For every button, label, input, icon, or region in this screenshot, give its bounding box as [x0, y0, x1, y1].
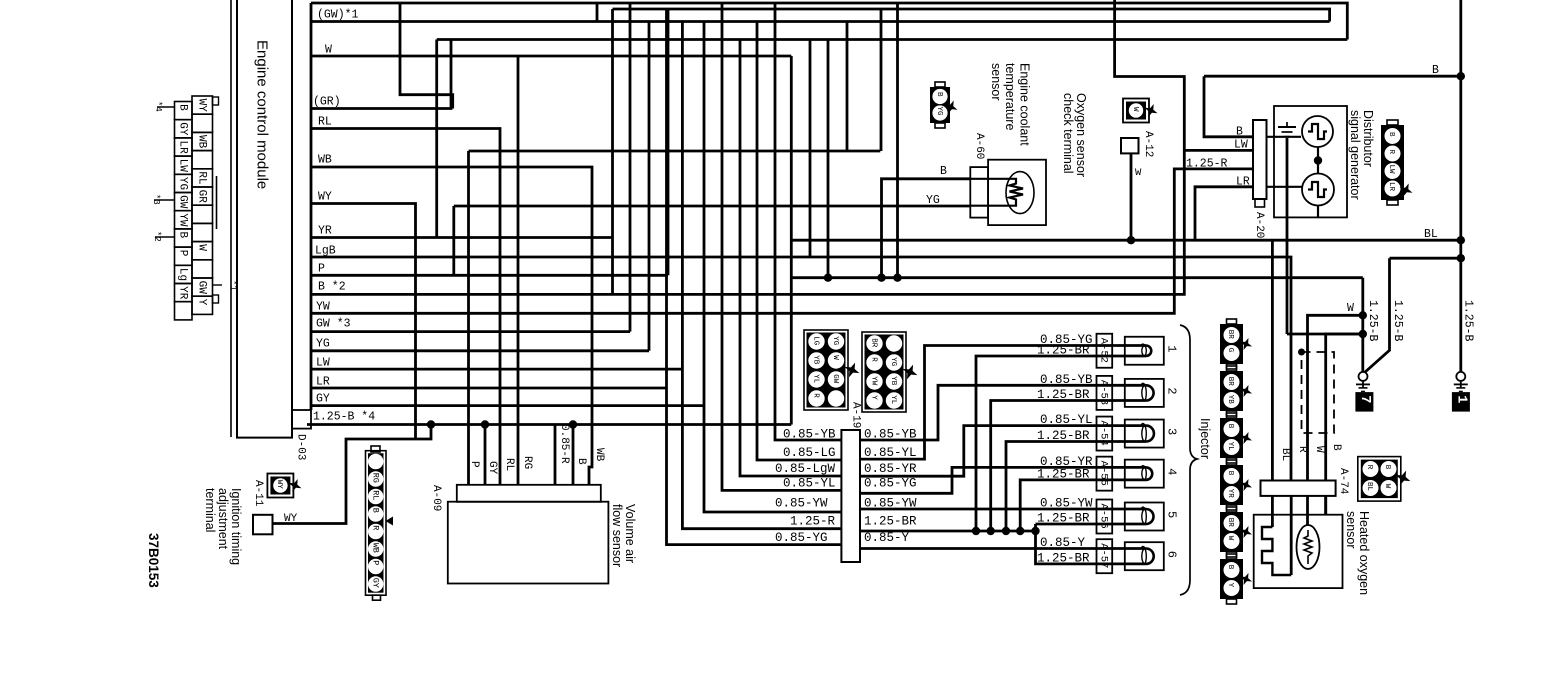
wire main right vertical 1.25-B to ground 1 [1459, 0, 1462, 372]
distributor pickup coil 1 [1302, 116, 1333, 147]
terminal A-12 open square [1121, 138, 1139, 153]
svg-text:0.85-R: 0.85-R [558, 424, 570, 464]
junction dot WY/1.25-B [427, 420, 435, 428]
svg-text:YG: YG [831, 336, 839, 346]
svg-text:BL: BL [1365, 482, 1373, 492]
wire LW from ECM [311, 368, 682, 371]
wire top bus y3 [311, 3, 1347, 40]
svg-text:W: W [1226, 536, 1234, 541]
svg-text:RG: RG [371, 473, 381, 483]
wire A-09 RG feed [517, 56, 520, 485]
junction dot BL/main vertical [1457, 236, 1465, 244]
wire bus y39.5 [437, 38, 1348, 41]
svg-text:YW: YW [870, 376, 878, 386]
svg-text:YB: YB [889, 376, 897, 386]
svg-text:RL: RL [371, 490, 381, 500]
wire vertical x630 [629, 3, 632, 332]
svg-text:YL: YL [889, 395, 897, 405]
svg-text:1.25-BR: 1.25-BR [1037, 344, 1090, 358]
svg-text:RL: RL [503, 458, 515, 471]
svg-text:A-09: A-09 [430, 485, 442, 511]
connector icon injector 2 (BR/YB) [1220, 371, 1243, 411]
svg-text:W: W [1313, 446, 1325, 453]
svg-text:0.85-YB: 0.85-YB [783, 428, 836, 442]
connector icon injector 3 (B/YL) [1220, 418, 1243, 458]
wire bus y334 to distributor ground [1287, 333, 1363, 336]
svg-text:LG: LG [812, 336, 820, 346]
svg-text:A-56: A-56 [1098, 504, 1110, 529]
svg-text:5: 5 [1165, 511, 1179, 518]
page boundary line [230, 0, 232, 437]
wire heated O2 B wire [1326, 334, 1363, 481]
injector 3 symbol [1125, 420, 1164, 448]
svg-text:LR: LR [1387, 182, 1395, 192]
connector icon B/YG (A-60) [930, 87, 950, 123]
junction dot dashed corner [1298, 349, 1305, 356]
svg-text:check terminal: check terminal [1061, 93, 1075, 174]
svg-text:1.25-B *4: 1.25-B *4 [313, 411, 375, 424]
connector A-20 bar [1253, 120, 1267, 199]
svg-text:0.85-YR: 0.85-YR [864, 462, 917, 476]
wire 1.25-BR riser injector1 [976, 356, 1125, 531]
svg-text:YR: YR [1226, 489, 1234, 499]
wire B*2 from ECM (Z-path to top) [311, 0, 1184, 294]
svg-text:LR: LR [1236, 176, 1250, 189]
svg-text:3: 3 [1165, 428, 1179, 435]
wire A-19 YG feed [667, 9, 842, 545]
svg-text:YG: YG [889, 357, 897, 367]
svg-text:1.25-R: 1.25-R [790, 515, 836, 529]
svg-text:R: R [812, 393, 820, 398]
svg-text:YW: YW [316, 301, 330, 314]
svg-text:R: R [870, 357, 878, 362]
svg-text:adjustment: adjustment [216, 488, 230, 550]
svg-text:W: W [1131, 107, 1139, 112]
wire B bus y76 [1204, 75, 1461, 78]
connector icon injector 6 (B/Y) [1220, 559, 1243, 599]
wire A-60 YG drop to P [452, 206, 455, 275]
svg-text:Oxygen sensor: Oxygen sensor [1074, 93, 1088, 177]
ignition timing adjustment terminal icon A-11 [267, 474, 293, 498]
svg-text:1.25-BR: 1.25-BR [1037, 388, 1090, 402]
svg-text:1.25-BR: 1.25-BR [1037, 512, 1090, 526]
svg-text:P: P [177, 250, 189, 257]
svg-text:0.85-YB: 0.85-YB [1040, 373, 1093, 387]
svg-text:B: B [1236, 126, 1243, 139]
svg-text:W: W [1135, 167, 1142, 179]
connector icon injector 1 (BR/G) [1220, 324, 1243, 364]
svg-text:Y: Y [196, 299, 208, 306]
svg-text:B: B [1432, 64, 1439, 77]
connector icon A-19 grid 2 [862, 332, 906, 412]
svg-text:WB: WB [196, 135, 208, 149]
svg-text:0.85-YW: 0.85-YW [775, 497, 828, 511]
wire A-19 1.25-BR bus out [860, 530, 1036, 533]
svg-text:A-55: A-55 [1098, 461, 1110, 486]
svg-text:0.85-YG: 0.85-YG [775, 531, 828, 545]
svg-text:2: 2 [1165, 387, 1179, 394]
svg-text:WB: WB [318, 154, 332, 167]
wire bus y240 (BL) [791, 239, 1461, 242]
engine coolant temperature sensor A-60 connector face [970, 167, 988, 218]
wire A-12 W wire [1130, 153, 1133, 240]
svg-text:A-54: A-54 [1098, 421, 1110, 446]
svg-text:Engine coolant: Engine coolant [1018, 63, 1032, 146]
svg-text:YL: YL [812, 374, 820, 384]
svg-text:RL: RL [318, 116, 332, 129]
svg-text:B: B [177, 104, 189, 111]
svg-text:6: 6 [1165, 551, 1179, 558]
svg-text:W: W [831, 355, 839, 360]
connector A-53 box [1097, 376, 1113, 410]
svg-text:YG: YG [926, 194, 940, 207]
connector A-56 box [1097, 500, 1113, 534]
svg-text:WY: WY [284, 513, 298, 525]
wire jog (GR) upper [400, 3, 453, 109]
wire A-19 YL feed [722, 3, 841, 490]
ground 7 [1359, 372, 1368, 381]
svg-text:P: P [318, 263, 325, 276]
svg-text:R: R [1296, 446, 1308, 453]
wire (GW)*1 from ECM [311, 20, 1330, 23]
engine coolant temperature sensor A-60 box [988, 160, 1046, 225]
connector strip icon (RG RL B R WB P GY) [366, 451, 387, 596]
distributor pickup coil 2 [1302, 174, 1334, 206]
svg-text:YW: YW [177, 213, 189, 227]
svg-text:GR: GR [196, 190, 208, 204]
wire A-19 LgW feed [740, 40, 841, 477]
svg-text:BR: BR [1226, 377, 1234, 387]
ground 1 [1456, 372, 1465, 381]
wire vertical x612 [611, 9, 614, 294]
svg-text:G: G [1226, 348, 1234, 353]
wire wire 1.25-B down to ground 7 [1364, 258, 1390, 373]
wire 1.25-BR riser injector4 [1020, 480, 1125, 531]
wire 1.25-BR riser injector3 [1006, 442, 1125, 532]
svg-text:GY: GY [316, 393, 330, 406]
distributor signal generator A-20 box [1274, 106, 1347, 217]
svg-text:Lg: Lg [177, 268, 189, 281]
svg-text:A-74: A-74 [1337, 468, 1349, 495]
svg-text:0.85-Y: 0.85-Y [864, 531, 910, 545]
svg-text:YR: YR [318, 225, 332, 238]
svg-text:GY: GY [177, 122, 189, 136]
distributor internal wires [1317, 147, 1319, 174]
svg-text:37B0153: 37B0153 [146, 533, 161, 588]
wire vertical x881 (top to bus151) [880, 9, 883, 151]
svg-text:B: B [1226, 424, 1234, 429]
svg-text:YR: YR [177, 286, 189, 300]
svg-text:WY: WY [318, 191, 332, 204]
svg-text:BR: BR [1226, 330, 1234, 340]
wire P from ECM [311, 274, 668, 277]
svg-text:B: B [1330, 444, 1342, 451]
svg-text:W: W [1347, 302, 1354, 315]
svg-text:1.25-B: 1.25-B [1366, 300, 1379, 342]
svg-text:LW: LW [316, 357, 330, 370]
wire 1.25-BR drop to injector6 [1036, 524, 1125, 564]
wire A-19 YL out to injector 1 [860, 346, 1125, 460]
svg-text:R: R [371, 525, 381, 530]
svg-text:YG: YG [316, 338, 330, 351]
svg-text:A-12: A-12 [1142, 131, 1154, 157]
svg-text:P: P [468, 461, 480, 468]
injector 2 symbol [1125, 379, 1164, 407]
svg-text:YL: YL [1226, 442, 1234, 452]
svg-text:WY: WY [275, 480, 283, 490]
wire A-60 YG wire [454, 205, 971, 208]
svg-text:Distributor: Distributor [1361, 110, 1375, 167]
svg-text:A-53: A-53 [1098, 380, 1110, 405]
svg-text:1.25-B: 1.25-B [1462, 300, 1475, 342]
connector icon A-74 (R B BL W) [1358, 457, 1401, 502]
svg-text:A-11: A-11 [252, 480, 264, 507]
connector D-03 tab [292, 410, 311, 429]
svg-text:B: B [940, 165, 947, 178]
wire YR from ECM [311, 236, 613, 239]
wire A-09 P feed [467, 151, 470, 485]
ECM connector face line [310, 3, 313, 410]
wire YW from ECM to A-20 1.25-R [311, 169, 1253, 313]
svg-text:LW: LW [177, 159, 189, 173]
svg-text:0.85-YL: 0.85-YL [1040, 413, 1093, 427]
svg-text:(GW)*1: (GW)*1 [317, 9, 359, 22]
svg-text:1: 1 [1165, 345, 1179, 352]
wire 1.25-BR riser injector2 [991, 401, 1125, 532]
svg-text:GY: GY [371, 578, 381, 588]
injector 1 symbol [1125, 337, 1164, 365]
svg-text:YB: YB [1226, 395, 1234, 405]
svg-text:Y: Y [870, 395, 878, 400]
svg-text:1.25-BR: 1.25-BR [1037, 429, 1090, 443]
svg-text:GW: GW [831, 374, 839, 384]
svg-text:Injector: Injector [1198, 418, 1212, 459]
wire A-19 YB feed [775, 3, 841, 440]
connector icon injector 4 (B/YR) [1220, 465, 1243, 505]
svg-text:W: W [325, 44, 332, 57]
svg-text:YG: YG [177, 177, 189, 190]
connector A-19 bar [841, 430, 860, 562]
svg-text:W: W [196, 244, 208, 251]
wire A-19 YR out to injector 3 [860, 426, 1125, 477]
wire wire to ground 7 (1.25-B) [1390, 257, 1461, 260]
connector A-74 bar [1261, 481, 1336, 496]
wire A-20 LR wire [1195, 187, 1253, 240]
svg-text:LR: LR [316, 376, 330, 389]
distributor ground symbol [1278, 126, 1296, 128]
injector group brace [1180, 325, 1197, 595]
svg-text:Heated oxygen: Heated oxygen [1357, 511, 1371, 595]
svg-text:B *2: B *2 [318, 281, 346, 294]
wire W from ECM [311, 55, 791, 58]
svg-text:B: B [575, 458, 587, 465]
svg-text:GW *3: GW *3 [316, 318, 351, 331]
volume air flow sensor A-09 connector face [457, 485, 601, 502]
wire bus y278 (B net) [791, 276, 1363, 279]
heated O2 sensor element [1306, 496, 1309, 526]
svg-text:A-57: A-57 [1098, 543, 1110, 568]
dashed shield box [1302, 352, 1335, 433]
wire 1.25-B*4 from ECM [307, 423, 791, 426]
coolant sensor element [1006, 172, 1034, 214]
wire A-19 LG feed [757, 22, 841, 461]
oxygen sensor check terminal icon [1123, 99, 1149, 123]
svg-text:0.85-YW: 0.85-YW [1040, 497, 1093, 511]
wire bus y9 [613, 9, 1330, 22]
svg-text:Y: Y [1226, 583, 1234, 588]
wire A-19 YB out to injector 2 [860, 385, 1125, 440]
svg-text:1.25-BR: 1.25-BR [1037, 551, 1090, 565]
svg-text:1.25-BR: 1.25-BR [864, 515, 917, 529]
svg-text:sensor: sensor [1344, 511, 1358, 549]
svg-text:RL: RL [196, 171, 208, 184]
wire 1.25-BR injector5 wire [1036, 523, 1125, 526]
wire WB from ECM [311, 167, 592, 485]
svg-text:WB: WB [371, 543, 381, 553]
svg-text:B: B [1383, 465, 1391, 470]
wire A-19 YW out to injector 5 [860, 508, 1125, 511]
svg-text:1: 1 [1453, 395, 1468, 403]
connector icon B/R/LW/LR (A-20) [1381, 125, 1404, 200]
svg-text:Ignition timing: Ignition timing [229, 488, 243, 565]
svg-text:WY: WY [196, 99, 208, 113]
svg-text:Engine control module: Engine control module [254, 40, 271, 189]
svg-text:D-03: D-03 [295, 434, 307, 460]
wire vertical x791 (W / BL riser / 1.25-B) [790, 56, 793, 425]
svg-text:GY: GY [486, 461, 498, 475]
wire heated O2 B below bar [1324, 496, 1327, 515]
svg-text:B: B [935, 92, 943, 97]
svg-text:RG: RG [521, 456, 533, 469]
svg-text:7: 7 [1357, 395, 1372, 403]
wire staircase (GW)*1 to top bus [596, 3, 599, 22]
wire vertical x828 [827, 40, 830, 278]
wire A-19 YG out to injector 4 [860, 467, 1125, 493]
svg-text:BL: BL [1279, 448, 1291, 461]
junction dot W join [1359, 311, 1367, 319]
wire LR from ECM [311, 387, 667, 390]
svg-text:0.85-LgW: 0.85-LgW [775, 462, 836, 476]
connector A-55 box [1097, 457, 1113, 491]
wire WY wire to A-11 terminal [272, 425, 431, 524]
svg-text:0.85-LG: 0.85-LG [783, 446, 836, 460]
svg-text:A-20: A-20 [1253, 212, 1265, 238]
wire vertical x649 [648, 22, 651, 351]
wire A-19 Y out to injector 6 [860, 547, 1125, 550]
injector 5 symbol [1125, 503, 1164, 531]
wire A-19 YW feed [704, 22, 841, 513]
connector pin grid (ECM terminal layout) [175, 102, 193, 120]
wire vertical x436.7 [435, 40, 438, 238]
svg-text:A-52: A-52 [1098, 338, 1110, 363]
junction dot B join [1359, 330, 1367, 338]
injector 6 symbol [1125, 542, 1164, 570]
svg-text:A-60: A-60 [973, 133, 985, 159]
wire vertical x668 [667, 9, 670, 275]
engine control module U1 box [237, 0, 292, 438]
svg-text:GW: GW [196, 281, 208, 295]
svg-text:GW: GW [177, 195, 189, 209]
svg-text:R: R [1365, 465, 1373, 470]
svg-text:0.85-Y: 0.85-Y [1040, 536, 1086, 550]
wire RL from ECM to A-09 [311, 129, 500, 485]
injector 4 symbol [1125, 460, 1164, 488]
svg-text:BR: BR [1226, 518, 1234, 528]
connector A-52 box [1097, 334, 1113, 368]
wire GW*3 from ECM [311, 330, 630, 333]
svg-text:B: B [1226, 565, 1234, 570]
heated O2 heater element [1271, 496, 1274, 527]
wire WY from ECM [311, 204, 416, 440]
wire A-19 R feed [682, 22, 841, 529]
svg-text:1.25-BR: 1.25-BR [1037, 467, 1090, 481]
svg-text:1.25-B: 1.25-B [1391, 300, 1404, 342]
wire vertical x847 [846, 22, 849, 152]
wire YG from ECM [311, 349, 649, 352]
svg-text:Volume air: Volume air [623, 504, 637, 563]
svg-text:0.85-YW: 0.85-YW [864, 497, 917, 511]
wire GY from ECM [311, 404, 704, 407]
wire A-20 B wire [1204, 76, 1253, 137]
svg-text:0.85-YL: 0.85-YL [864, 446, 917, 460]
svg-text:temperature: temperature [1003, 63, 1017, 130]
wire A-60 B wire [882, 179, 971, 278]
svg-text:BL: BL [1424, 228, 1438, 241]
heated oxygen sensor box [1254, 515, 1343, 588]
svg-text:B: B [177, 232, 189, 239]
svg-text:YG: YG [935, 107, 943, 117]
svg-text:flow sensor: flow sensor [610, 504, 624, 567]
svg-text:1.25-R: 1.25-R [1186, 158, 1228, 171]
connector A-57 box [1097, 539, 1113, 573]
svg-text:terminal: terminal [203, 488, 217, 532]
svg-text:B: B [1226, 471, 1234, 476]
wire distributor ground drop [1286, 138, 1289, 334]
wire A-09 B feed [572, 425, 575, 485]
terminal A-11 open square [253, 515, 273, 535]
svg-text:BR: BR [870, 338, 878, 348]
svg-text:R: R [1387, 150, 1395, 155]
wire heated O2 W wire [1308, 315, 1363, 480]
wire A-20 LW wire [1184, 149, 1253, 152]
volume air flow sensor A-09 box [448, 502, 609, 584]
svg-text:W: W [1383, 484, 1391, 489]
svg-text:LR: LR [177, 141, 189, 155]
wire LgB from ECM to heated O2 R [311, 257, 1291, 481]
svg-text:B: B [1387, 132, 1395, 137]
wire vertical x810 [809, 40, 812, 258]
svg-text:YB: YB [812, 355, 820, 365]
connector icon A-19 grid 1 [804, 330, 848, 410]
svg-text:B: B [371, 508, 381, 513]
wire bus y151 [469, 150, 881, 153]
wire B-net drop to ground 7 [1361, 278, 1364, 372]
svg-text:P: P [371, 560, 381, 565]
svg-text:0.85-YG: 0.85-YG [864, 477, 917, 491]
connector A-54 box [1097, 417, 1113, 451]
svg-text:signal generator: signal generator [1348, 110, 1362, 200]
svg-text:LW: LW [1234, 139, 1248, 152]
svg-text:WB: WB [593, 448, 605, 462]
svg-text:4: 4 [1165, 468, 1179, 475]
svg-text:0.85-YB: 0.85-YB [864, 428, 917, 442]
wire A-09 GY feed [484, 425, 487, 485]
svg-text:sensor: sensor [989, 63, 1003, 101]
wire heated O2 BL wire [1271, 240, 1274, 480]
connector icon injector 5 (BR/W) [1220, 512, 1243, 552]
wire A-09 0.85-R feed [554, 425, 557, 485]
svg-text:LgB: LgB [315, 245, 336, 258]
